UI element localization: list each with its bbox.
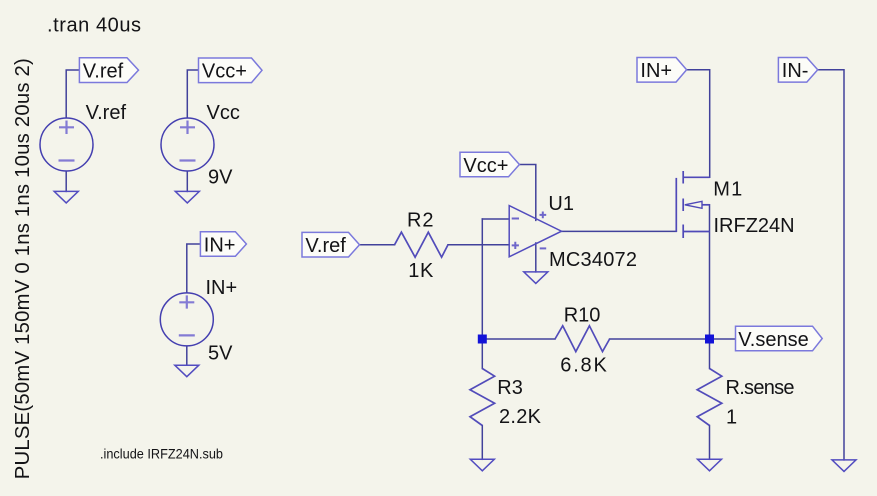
svg-text:IRFZ24N: IRFZ24N — [714, 215, 795, 237]
svg-text:MC34072: MC34072 — [549, 249, 637, 271]
svg-text:2.2K: 2.2K — [499, 406, 542, 428]
svg-text:PULSE(50mV 150mV 0 1ns 1ns 10u: PULSE(50mV 150mV 0 1ns 1ns 10us 20us 2) — [12, 58, 34, 479]
svg-text:5V: 5V — [208, 343, 233, 365]
svg-text:V.sense: V.sense — [738, 329, 808, 351]
svg-text:IN+: IN+ — [640, 60, 672, 82]
svg-text:R2: R2 — [407, 209, 434, 231]
svg-text:IN+: IN+ — [206, 277, 238, 299]
svg-text:1: 1 — [726, 406, 737, 428]
svg-text:6.8K: 6.8K — [560, 354, 607, 376]
svg-text:Vcc: Vcc — [207, 102, 240, 124]
svg-text:.include IRFZ24N.sub: .include IRFZ24N.sub — [100, 446, 223, 461]
svg-text:IN-: IN- — [782, 60, 809, 82]
svg-text:V.ref: V.ref — [86, 102, 127, 124]
svg-text:9V: 9V — [208, 166, 233, 188]
svg-text:V.ref: V.ref — [305, 235, 346, 257]
svg-text:R10: R10 — [564, 305, 601, 327]
svg-text:Vcc+: Vcc+ — [463, 155, 508, 177]
svg-text:U1: U1 — [548, 193, 574, 215]
svg-text:R.sense: R.sense — [726, 377, 795, 399]
svg-text:.tran 40us: .tran 40us — [47, 15, 141, 37]
svg-text:V.ref: V.ref — [83, 61, 124, 83]
svg-text:1K: 1K — [408, 260, 434, 282]
svg-text:M1: M1 — [713, 179, 742, 201]
svg-text:IN+: IN+ — [204, 234, 236, 256]
svg-text:R3: R3 — [497, 377, 523, 399]
svg-text:Vcc+: Vcc+ — [202, 61, 247, 83]
